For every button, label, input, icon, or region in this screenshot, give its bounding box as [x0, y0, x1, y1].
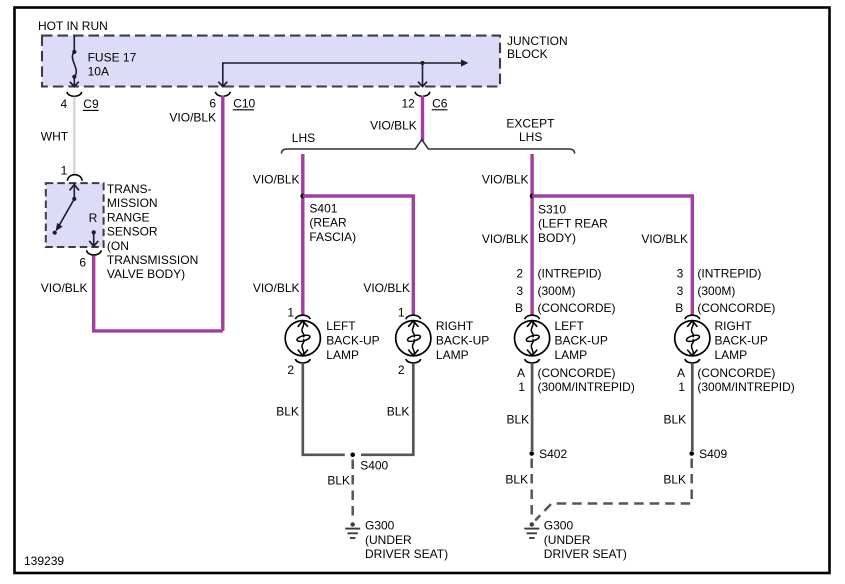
fuse F17 output arrow to C9 [70, 77, 79, 87]
sensor pin 6 connector symbol [87, 250, 102, 255]
right back-up lamp (except) name [715, 319, 768, 362]
svg-text:VIO/BLK: VIO/BLK [482, 172, 529, 186]
connector C9 symbol [67, 92, 82, 97]
junction block box [42, 36, 500, 87]
svg-text:(INTREPID): (INTREPID) [697, 267, 761, 281]
splice S401 dot [300, 194, 305, 199]
svg-text:3: 3 [677, 267, 684, 281]
svg-text:2: 2 [287, 363, 294, 377]
svg-text:G300: G300 [544, 519, 574, 533]
sensor pin 1 connector symbol [67, 175, 82, 181]
svg-text:A: A [677, 366, 685, 380]
svg-text:1: 1 [678, 380, 685, 394]
svg-text:TRANSMISSION: TRANSMISSION [107, 253, 198, 267]
fuse F17 feed wire [73, 36, 75, 52]
ground G300 (right) label [544, 519, 627, 561]
sensor switch pivot dot [72, 197, 76, 201]
svg-text:S402: S402 [539, 447, 567, 461]
svg-text:MISSION: MISSION [107, 196, 158, 210]
svg-text:VIO/BLK: VIO/BLK [641, 232, 688, 246]
svg-text:1: 1 [398, 306, 405, 320]
wire VIO/BLK branch to right back-up lamp [303, 196, 414, 316]
svg-text:BLK: BLK [387, 405, 410, 419]
svg-text:FASCIA): FASCIA) [309, 230, 356, 244]
left back-up lamp (except) top pin labels [515, 267, 616, 316]
left back-up lamp (LHS) name [326, 319, 379, 362]
svg-text:VIO/BLK: VIO/BLK [482, 232, 529, 246]
left back-up lamp (except) symbol [515, 315, 550, 363]
svg-text:(300M): (300M) [538, 284, 576, 298]
svg-text:BODY): BODY) [538, 231, 576, 245]
wire BLK from left lamp (except) to S402 [531, 363, 534, 451]
svg-text:12: 12 [401, 97, 415, 111]
svg-text:DRIVER SEAT): DRIVER SEAT) [544, 547, 627, 561]
svg-text:C10: C10 [233, 97, 255, 111]
svg-text:RIGHT: RIGHT [436, 319, 474, 333]
svg-text:BLK: BLK [505, 472, 528, 486]
bus drop wire to C6 [422, 63, 424, 86]
svg-text:JUNCTION: JUNCTION [507, 34, 568, 48]
svg-text:HOT IN RUN: HOT IN RUN [38, 19, 108, 33]
bus junction node at C6 [420, 61, 424, 65]
svg-text:1: 1 [518, 380, 525, 394]
connector C10 symbol [215, 92, 230, 97]
svg-text:LAMP: LAMP [555, 348, 588, 362]
svg-text:RANGE: RANGE [107, 210, 150, 224]
svg-text:LHS: LHS [292, 131, 315, 145]
wire VIO/BLK from C10 down [221, 96, 224, 331]
sensor left contact dot [53, 231, 57, 235]
svg-text:S400: S400 [360, 458, 388, 472]
splice S310 dot [530, 194, 535, 199]
svg-text:WHT: WHT [41, 129, 69, 143]
svg-text:B: B [675, 301, 683, 315]
svg-text:S401: S401 [309, 201, 337, 215]
sensor R output line with down arrow [89, 232, 98, 246]
svg-text:BLK: BLK [663, 472, 686, 486]
svg-text:(CONCORDE): (CONCORDE) [697, 366, 775, 380]
svg-text:TRANS-: TRANS- [107, 182, 152, 196]
svg-text:3: 3 [516, 284, 523, 298]
left back-up lamp (LHS) symbol [285, 315, 320, 363]
fuse F17 bottom terminal dot [72, 75, 76, 79]
wire BLK from right lamp (except) to S409 [691, 363, 694, 451]
svg-text:6: 6 [209, 97, 216, 111]
svg-text:(300M/INTREPID): (300M/INTREPID) [538, 380, 635, 394]
svg-text:DRIVER SEAT): DRIVER SEAT) [365, 547, 448, 561]
fuse F17 top terminal dot [72, 50, 76, 54]
label EXCEPT LHS [506, 116, 555, 144]
svg-text:LEFT: LEFT [555, 319, 585, 333]
bus right continuation arrow [461, 59, 468, 66]
left back-up lamp (except) bottom pin labels [517, 366, 635, 394]
wire VIO/BLK from sensor pin 6 to C10 wire [94, 256, 223, 331]
wire WHT from C9 to sensor [73, 97, 76, 176]
svg-text:(CONCORDE): (CONCORDE) [697, 301, 775, 315]
left back-up lamp (except) name [555, 319, 608, 362]
svg-text:LAMP: LAMP [715, 348, 748, 362]
svg-text:3: 3 [677, 284, 684, 298]
branch brace [282, 140, 575, 154]
svg-text:SENSOR: SENSOR [107, 225, 158, 239]
svg-text:1: 1 [61, 164, 68, 178]
wire BLK from left lamp (LHS) to S400 [303, 363, 345, 455]
svg-text:BACK-UP: BACK-UP [436, 333, 489, 347]
right back-up lamp (LHS) name [436, 319, 489, 362]
wire VIO/BLK LHS branch down to left lamp [301, 154, 304, 316]
sensor switch wiper arm with arrow [56, 199, 75, 231]
svg-text:C9: C9 [83, 97, 99, 111]
splice S310 label [538, 202, 608, 244]
fuse F17 value label [88, 50, 137, 78]
right back-up lamp (except) top pin labels [675, 267, 775, 316]
svg-text:2: 2 [516, 267, 523, 281]
svg-text:BLK: BLK [507, 413, 530, 427]
svg-text:VIO/BLK: VIO/BLK [41, 281, 88, 295]
svg-text:6: 6 [79, 255, 86, 269]
svg-text:4: 4 [61, 97, 68, 111]
svg-text:(INTREPID): (INTREPID) [538, 267, 602, 281]
splice S402 dot [529, 451, 534, 456]
svg-text:(ON: (ON [107, 239, 129, 253]
ground G300 (right) symbol [524, 522, 539, 538]
splice S409 dot [689, 451, 694, 456]
wire BLK from right lamp (LHS) to S400 [361, 363, 413, 455]
svg-text:VIO/BLK: VIO/BLK [363, 281, 410, 295]
svg-text:10A: 10A [88, 64, 109, 78]
connector C6 symbol [415, 92, 430, 97]
connector C10 label [233, 97, 256, 111]
svg-text:R: R [89, 211, 98, 225]
svg-text:B: B [515, 301, 523, 315]
svg-text:VALVE BODY): VALVE BODY) [107, 267, 185, 281]
svg-text:139239: 139239 [24, 554, 64, 568]
svg-text:(CONCORDE): (CONCORDE) [538, 366, 616, 380]
right back-up lamp (except) bottom pin labels [677, 366, 795, 394]
svg-text:(300M): (300M) [697, 284, 735, 298]
wire VIO/BLK branch to right back-up lamp (except) [532, 196, 692, 316]
right back-up lamp (LHS) symbol [396, 315, 431, 363]
svg-text:(REAR: (REAR [309, 216, 347, 230]
right back-up lamp (except) symbol [675, 315, 710, 363]
junction block internal bus wire [223, 63, 462, 86]
svg-text:VIO/BLK: VIO/BLK [253, 281, 300, 295]
transmission range sensor box [46, 183, 104, 247]
sensor R contact dot [92, 230, 96, 234]
ground G300 (left) label [365, 519, 448, 561]
wire BLK dashed S400 to ground [351, 460, 354, 518]
fuse F17 element [72, 52, 76, 77]
bus arrow down to C6 [418, 82, 427, 87]
svg-text:(300M/INTREPID): (300M/INTREPID) [697, 380, 794, 394]
svg-text:(UNDER: (UNDER [544, 533, 591, 547]
svg-text:LHS: LHS [519, 130, 542, 144]
svg-text:BLK: BLK [664, 413, 687, 427]
svg-text:(CONCORDE): (CONCORDE) [538, 301, 616, 315]
wire BLK dashed S402 to ground [530, 459, 533, 518]
svg-text:EXCEPT: EXCEPT [506, 116, 555, 130]
connector C9 label [83, 97, 99, 111]
svg-text:(LEFT REAR: (LEFT REAR [538, 217, 608, 231]
svg-text:RIGHT: RIGHT [715, 319, 753, 333]
svg-text:BACK-UP: BACK-UP [555, 333, 608, 347]
svg-text:VIO/BLK: VIO/BLK [253, 172, 300, 186]
svg-text:BLK: BLK [276, 405, 299, 419]
svg-text:BACK-UP: BACK-UP [326, 333, 379, 347]
junction block label [507, 34, 568, 61]
svg-text:FUSE 17: FUSE 17 [88, 50, 137, 64]
connector C6 label [432, 97, 448, 111]
svg-text:A: A [517, 366, 525, 380]
svg-text:(UNDER: (UNDER [365, 533, 412, 547]
svg-text:S310: S310 [538, 202, 566, 216]
svg-text:2: 2 [398, 363, 405, 377]
svg-text:VIO/BLK: VIO/BLK [370, 119, 417, 133]
wire BLK dashed S409 to ground [535, 459, 692, 521]
splice S401 label [309, 201, 356, 243]
svg-text:BLK: BLK [327, 474, 350, 488]
svg-text:VIO/BLK: VIO/BLK [169, 111, 216, 125]
svg-text:BLOCK: BLOCK [507, 47, 548, 61]
wire VIO/BLK EXCEPT branch down to lamp [530, 154, 533, 316]
svg-text:BACK-UP: BACK-UP [715, 333, 768, 347]
ground G300 (left) symbol [345, 522, 360, 538]
svg-text:LAMP: LAMP [326, 348, 359, 362]
splice S400 dot [350, 453, 355, 458]
svg-text:LAMP: LAMP [436, 348, 469, 362]
sensor name label [107, 182, 198, 281]
bus arrow down to C10 [218, 82, 227, 87]
svg-text:S409: S409 [699, 447, 727, 461]
svg-text:1: 1 [287, 306, 294, 320]
sensor switch input line with up arrow [70, 183, 79, 199]
svg-text:G300: G300 [365, 519, 395, 533]
wire VIO/BLK stub from C6 [421, 96, 424, 142]
svg-text:LEFT: LEFT [326, 319, 356, 333]
svg-text:C6: C6 [432, 97, 448, 111]
